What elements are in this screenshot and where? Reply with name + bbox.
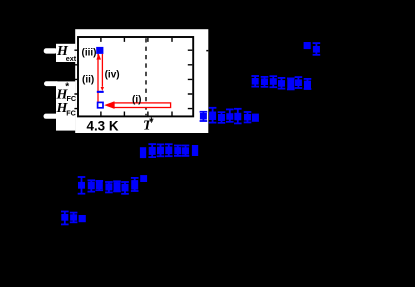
data point E1 <box>78 176 86 195</box>
data point B5 <box>287 78 295 91</box>
data point E8 (plain square) <box>140 175 147 182</box>
data point E3 <box>96 180 104 191</box>
svg-text:*: * <box>149 116 154 128</box>
inset right axis ticks <box>188 50 193 108</box>
wire: right red line H_ext to H*_FC <box>101 54 103 87</box>
open blue square at H_FC <box>98 102 103 107</box>
svg-text:ext: ext <box>66 54 77 63</box>
data point A2 <box>313 42 321 56</box>
data point E5 <box>113 180 121 192</box>
svg-text:(ii): (ii) <box>82 75 94 86</box>
data point C4 <box>226 109 234 123</box>
inset bottom axis ticks <box>101 112 172 116</box>
data point B1 <box>251 75 259 87</box>
data point B2 <box>261 76 269 88</box>
svg-text:4.3 K: 4.3 K <box>87 119 119 134</box>
H*_FC blue level dash <box>97 91 104 93</box>
dashed T* line <box>145 38 147 115</box>
arrow (iv) head (points up) <box>96 54 101 60</box>
data point C6 <box>244 111 252 123</box>
arrow (i) hollow shaft <box>114 103 171 108</box>
svg-text:FC: FC <box>67 94 77 103</box>
H*FC / HFC labels white box <box>56 81 75 130</box>
data point B4 <box>278 77 286 90</box>
solid blue square at H_ext <box>96 47 103 54</box>
svg-text:(iv): (iv) <box>105 70 120 81</box>
arrow (i) head (points left) <box>104 101 114 109</box>
white tick dash at H_ext level <box>44 48 58 53</box>
vertical shaft white interior <box>97 54 102 102</box>
data point D6 <box>182 145 190 157</box>
data point B6 <box>295 76 303 89</box>
data point B3 <box>270 75 278 88</box>
svg-text:*: * <box>65 82 69 93</box>
inset left axis ticks <box>74 50 78 108</box>
white tick dash at H*_FC level <box>44 81 59 86</box>
inset white background panel <box>75 29 208 133</box>
data point D3 <box>157 144 165 158</box>
data point A1 (plain square) <box>304 42 311 49</box>
data point C5 <box>234 108 242 124</box>
svg-text:(iii): (iii) <box>82 48 97 59</box>
data point D1 (tall square) <box>140 147 146 158</box>
H_ext label white box <box>56 44 75 62</box>
svg-text:(i): (i) <box>132 95 141 106</box>
data point B7 <box>304 78 312 90</box>
data point C7 (plain square) <box>252 114 259 122</box>
data point F3 (plain square) <box>79 215 86 222</box>
inset axes frame <box>78 37 193 116</box>
data point D4 <box>165 143 173 157</box>
svg-text:FC: FC <box>66 109 76 118</box>
data point C2 <box>209 107 217 124</box>
data point C1 <box>200 111 208 122</box>
data point C3 <box>218 111 226 123</box>
white tick dash at H_FC level <box>44 114 59 119</box>
inset top axis ticks <box>101 38 172 42</box>
data point E7 <box>131 177 139 192</box>
data point D7 (tall square) <box>192 145 198 156</box>
data point D2 <box>148 143 156 158</box>
data point E4 <box>105 181 113 193</box>
arrow (ii) head (points down) <box>101 87 104 91</box>
data point E6 <box>121 181 129 195</box>
data point D5 <box>174 145 182 157</box>
wire: left red line H_ext to H_FC <box>97 54 99 102</box>
data point F1 <box>61 211 69 226</box>
data point F2 <box>70 212 78 224</box>
main plot y-axis tick stub on white panel edge <box>206 50 208 52</box>
data point E2 <box>88 179 96 192</box>
